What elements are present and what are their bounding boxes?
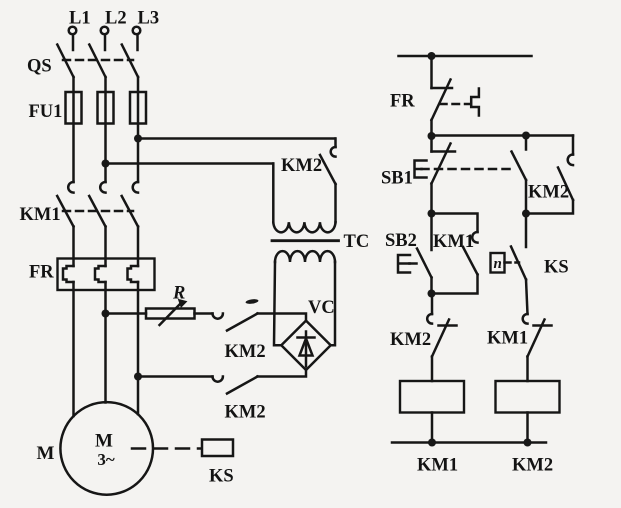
svg-text:KM1: KM1: [433, 232, 474, 252]
svg-text:KM2: KM2: [390, 330, 431, 350]
svg-text:L1: L1: [69, 9, 91, 29]
svg-text:n: n: [494, 256, 502, 272]
svg-text:SB1: SB1: [381, 169, 413, 189]
svg-text:KM1: KM1: [417, 456, 458, 476]
svg-text:FR: FR: [29, 263, 54, 283]
svg-text:M: M: [37, 443, 55, 464]
svg-text:KS: KS: [544, 258, 569, 278]
svg-text:KM2: KM2: [528, 183, 569, 203]
svg-text:R: R: [172, 284, 185, 304]
svg-text:KM1: KM1: [487, 329, 528, 349]
svg-text:L2: L2: [105, 9, 127, 29]
svg-text:M: M: [95, 431, 113, 452]
svg-text:FU1: FU1: [29, 102, 63, 122]
svg-text:QS: QS: [27, 57, 52, 77]
svg-text:KM1: KM1: [20, 205, 61, 225]
svg-text:KM2: KM2: [281, 156, 322, 176]
svg-text:FR: FR: [390, 92, 415, 112]
svg-text:VC: VC: [308, 298, 335, 318]
svg-text:KM2: KM2: [225, 403, 266, 423]
svg-text:TC: TC: [344, 232, 370, 252]
svg-text:KS: KS: [209, 467, 234, 487]
svg-text:3~: 3~: [97, 450, 115, 469]
svg-text:SB2: SB2: [385, 231, 417, 251]
svg-text:L3: L3: [138, 9, 160, 29]
svg-text:KM2: KM2: [225, 342, 266, 362]
svg-text:KM2: KM2: [512, 456, 553, 476]
